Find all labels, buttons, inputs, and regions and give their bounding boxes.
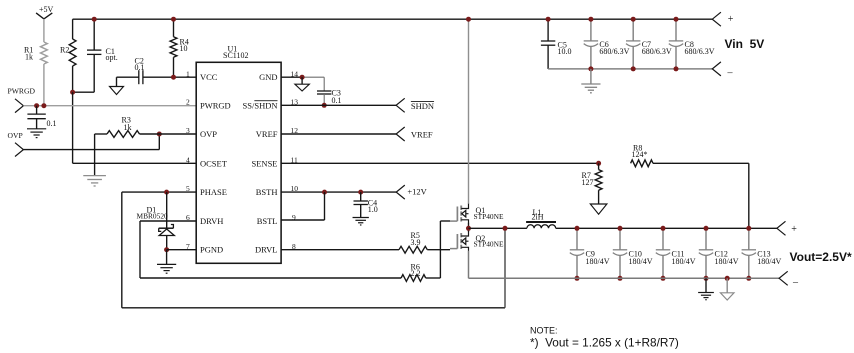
- svg-text:2.2: 2.2: [411, 269, 421, 278]
- svg-text:180/4V: 180/4V: [672, 257, 696, 266]
- U1 pin labels: [200, 72, 278, 255]
- node BSTH/C4 junction: [358, 190, 363, 195]
- wire PHASE route: [122, 192, 505, 308]
- wire R2 bottom: [72, 66, 74, 92]
- capacitor C8: [669, 19, 715, 69]
- op-amp U1 SC1102 body: [196, 45, 281, 264]
- resistor R1: [24, 42, 47, 64]
- node C8 bottom: [674, 66, 679, 71]
- diode D1 MBR0520: [137, 192, 175, 250]
- svg-text:*) Vout = 1.265 x (1+R8/R7): *) Vout = 1.265 x (1+R8/R7): [530, 336, 679, 350]
- node C9 top: [575, 226, 580, 231]
- connector Vout+: [777, 221, 797, 235]
- capacitor 0.1 at PWRGD: [27, 114, 56, 128]
- svg-text:0.1: 0.1: [47, 119, 57, 128]
- ground below R3: [83, 176, 106, 186]
- resistor R2: [60, 39, 76, 66]
- svg-text:OVP: OVP: [200, 129, 217, 139]
- wire VREF pin 12: [281, 126, 396, 135]
- connector Vin+: [712, 12, 734, 26]
- wire +5V/Vin top rail: [73, 18, 713, 20]
- svg-text:PWRGD: PWRGD: [8, 87, 36, 96]
- connector +12V: [396, 185, 427, 199]
- svg-text:NOTE:: NOTE:: [530, 326, 558, 336]
- wire PGND pin 7: [167, 242, 197, 251]
- capacitor C2: [135, 57, 145, 85]
- svg-text:SC1102: SC1102: [223, 51, 249, 60]
- resistor R6: [401, 263, 426, 282]
- inductor L1: [526, 208, 556, 229]
- wire R4 to VCC: [173, 57, 175, 77]
- svg-text:OVP: OVP: [8, 131, 23, 140]
- svg-text:DRVL: DRVL: [255, 245, 277, 255]
- svg-text:9: 9: [292, 213, 296, 222]
- connector Vin-: [712, 62, 733, 79]
- svg-text:STP40NE: STP40NE: [474, 240, 504, 249]
- svg-text:VREF: VREF: [411, 130, 433, 140]
- node PHASE/switch junction: [503, 226, 508, 231]
- wire to ground C12: [705, 278, 707, 292]
- node switch node: [466, 226, 471, 231]
- svg-text:680/6.3V: 680/6.3V: [642, 47, 672, 56]
- node C3/SSSHDN junction: [322, 103, 327, 108]
- wire R6 to Q1 gate: [426, 221, 450, 278]
- svg-text:BSTL: BSTL: [257, 216, 278, 226]
- label Vout: [790, 250, 852, 264]
- ground below Vin minus: [581, 84, 600, 93]
- resistor R3: [107, 115, 140, 137]
- connector OVP input: [8, 131, 24, 157]
- wire Q1 source to switch node: [468, 223, 470, 229]
- capacitor C9: [570, 228, 610, 278]
- resistor R7: [582, 163, 603, 190]
- svg-text:180/4V: 180/4V: [715, 257, 739, 266]
- capacitor C13: [742, 228, 782, 278]
- svg-text:4: 4: [186, 155, 190, 164]
- wire switch node to L1: [469, 227, 527, 229]
- wire switch node to Q2 drain: [468, 228, 470, 231]
- transistor Q2 STP40NE: [450, 231, 504, 251]
- svg-text:0.1: 0.1: [332, 96, 342, 105]
- svg-text:DRVH: DRVH: [200, 216, 223, 226]
- capacitor C5: [541, 19, 572, 69]
- svg-text:+5V: +5V: [39, 5, 54, 14]
- svg-text:1.0: 1.0: [368, 205, 378, 214]
- svg-text:1: 1: [186, 69, 190, 78]
- node Vin rail to Q1: [466, 17, 471, 22]
- capacitor C7: [626, 19, 672, 69]
- svg-text:SENSE: SENSE: [252, 158, 278, 168]
- node minus rail ground tri: [725, 276, 730, 281]
- svg-text:2: 2: [186, 97, 190, 106]
- svg-text:11: 11: [291, 155, 298, 164]
- capacitor C3: [317, 77, 342, 105]
- node D1/PGND junction: [164, 247, 169, 252]
- node C11 top: [661, 226, 666, 231]
- power +5V symbol: [36, 5, 53, 19]
- node C8 top: [674, 17, 679, 22]
- wire BSTL pin 9: [281, 213, 324, 222]
- connector VREF: [396, 127, 433, 141]
- svg-text:SS/SHDN: SS/SHDN: [243, 100, 278, 110]
- wire BSTL tie: [324, 192, 326, 220]
- svg-text:1k: 1k: [124, 123, 132, 132]
- svg-text:opt.: opt.: [106, 53, 118, 62]
- connector Vout-: [779, 271, 799, 288]
- svg-text:PWRGD: PWRGD: [200, 100, 231, 110]
- node C1 top: [92, 17, 97, 22]
- svg-text:13: 13: [291, 97, 299, 106]
- wire PHASE pin 5: [122, 184, 196, 193]
- ground arrow below minus rail: [720, 293, 734, 300]
- resistor R5: [399, 231, 427, 253]
- node SENSE/R7 junction: [596, 161, 601, 166]
- wire to ground arrow: [726, 278, 728, 293]
- node C13 bottom: [746, 276, 751, 281]
- transistor Q1 STP40NE: [450, 203, 504, 223]
- capacitor C10: [613, 228, 653, 278]
- node C7 bottom: [631, 66, 636, 71]
- svg-text:6: 6: [186, 213, 190, 222]
- svg-text:VCC: VCC: [200, 72, 218, 82]
- svg-text:7: 7: [186, 242, 190, 251]
- svg-text:127: 127: [582, 178, 594, 187]
- wire DRVL pin 8: [281, 242, 399, 251]
- ground below minus rail: [698, 293, 714, 300]
- wire C6 ground stub: [590, 69, 592, 84]
- capacitor C6: [584, 19, 630, 69]
- svg-text:8: 8: [292, 242, 296, 251]
- wire Q2 source down: [468, 251, 470, 278]
- svg-text:+: +: [728, 14, 734, 25]
- capacitor C1: [87, 47, 118, 62]
- label Vin 5V: [725, 37, 765, 51]
- wire BSTH pin 10: [281, 184, 396, 193]
- wire VCC pin 1: [143, 69, 196, 78]
- svg-text:10.0: 10.0: [558, 47, 572, 56]
- node C6 top: [588, 17, 593, 22]
- wire Vin minus rail: [548, 68, 712, 70]
- node GND/ground junction: [300, 75, 305, 80]
- svg-text:PHASE: PHASE: [200, 187, 227, 197]
- wire OCSET pin 4: [73, 155, 197, 164]
- svg-text:–: –: [792, 277, 799, 288]
- svg-text:680/6.3V: 680/6.3V: [599, 47, 629, 56]
- ground arrow below R7: [590, 204, 607, 214]
- svg-text:VREF: VREF: [256, 129, 278, 139]
- node R4/VCC junction: [171, 75, 176, 80]
- svg-text:GND: GND: [259, 72, 277, 82]
- wire C1 bottom: [73, 54, 95, 92]
- wire PWRGD net: [23, 97, 196, 106]
- svg-text:180/4V: 180/4V: [629, 257, 653, 266]
- svg-text:1k: 1k: [25, 53, 33, 62]
- wire PWRGD to cap: [36, 106, 38, 114]
- capacitor C4: [354, 192, 378, 217]
- svg-text:+12V: +12V: [407, 187, 427, 197]
- wire R3 to ground: [95, 134, 107, 176]
- svg-text:10: 10: [291, 184, 299, 193]
- svg-text:3: 3: [186, 126, 190, 135]
- node C10 bottom: [618, 276, 623, 281]
- resistor R4: [170, 37, 189, 57]
- ground below PGND: [157, 264, 176, 273]
- wire cap to ground: [36, 119, 38, 129]
- node C12 bottom: [704, 276, 709, 281]
- wire rail to R2: [72, 19, 74, 39]
- wire R1 to PWRGD net: [43, 64, 45, 106]
- ground below PWRGD cap: [27, 129, 46, 138]
- node PWRGD/cap junction: [34, 103, 39, 108]
- svg-text:Vout=2.5V*: Vout=2.5V*: [790, 250, 852, 264]
- svg-text:180/4V: 180/4V: [757, 257, 781, 266]
- wire R8 to Vout rail: [653, 163, 749, 228]
- svg-text:R2: R2: [60, 46, 69, 55]
- node BSTH/BSTL junction: [322, 190, 327, 195]
- svg-text:BSTH: BSTH: [256, 187, 278, 197]
- wire OVP pin 3: [140, 126, 197, 135]
- node OVP/R3 junction: [157, 132, 162, 137]
- svg-text:Vin 5V: Vin 5V: [725, 37, 765, 51]
- node C6 bottom: [588, 66, 593, 71]
- svg-text:STP40NE: STP40NE: [474, 212, 504, 221]
- wire R7 to ground arrow: [598, 190, 600, 204]
- svg-text:12: 12: [291, 126, 299, 135]
- svg-text:3.9: 3.9: [411, 238, 421, 247]
- node C9 bottom: [575, 276, 580, 281]
- wire R2/C1 to OCSET: [72, 92, 74, 163]
- node PHASE/D1 junction: [164, 190, 169, 195]
- svg-text:OCSET: OCSET: [200, 158, 228, 168]
- connector PWRGD input: [8, 87, 36, 113]
- svg-text:MBR0520: MBR0520: [137, 212, 169, 221]
- ground below C2: [110, 87, 124, 95]
- svg-text:14: 14: [291, 69, 299, 78]
- wire Vout minus rail: [469, 277, 780, 279]
- node R2/C1 junction: [70, 90, 75, 95]
- node R4 top: [171, 17, 176, 22]
- wire rail to R4: [173, 19, 175, 37]
- node C12 top: [704, 226, 709, 231]
- svg-text:+: +: [791, 224, 797, 235]
- wire GND pin 14: [281, 69, 324, 78]
- wire +5V to R1: [43, 19, 45, 42]
- node PWRGD/R1 junction: [41, 103, 46, 108]
- note text: [530, 326, 679, 350]
- wire OVP input: [23, 134, 159, 150]
- wire PGND to ground: [166, 250, 168, 265]
- wire SS/SHDN pin 13: [281, 97, 396, 106]
- svg-text:PGND: PGND: [200, 245, 223, 255]
- svg-text:0.1: 0.1: [135, 63, 145, 72]
- wire rail to C1: [93, 19, 95, 50]
- svg-text:180/4V: 180/4V: [586, 257, 610, 266]
- capacitor C11: [656, 228, 696, 278]
- connector SHDN: [396, 98, 434, 112]
- node C7 top: [631, 17, 636, 22]
- svg-text:10: 10: [180, 44, 188, 53]
- ground below C4: [353, 218, 369, 225]
- wire L1 to Vout+: [556, 227, 777, 229]
- node C11 bottom: [661, 276, 666, 281]
- capacitor C12: [699, 228, 739, 278]
- svg-text:–: –: [727, 67, 734, 78]
- resistor R8: [631, 143, 653, 166]
- wire C2 to ground: [117, 77, 139, 86]
- wire Vin to Q1 drain: [468, 19, 470, 204]
- node C10 top: [618, 226, 623, 231]
- wire R5 to Q2 gate: [427, 249, 450, 251]
- svg-text:2ìH: 2ìH: [532, 212, 544, 221]
- wire DRVH route: [140, 221, 401, 278]
- wire SENSE pin 11: [281, 155, 598, 164]
- svg-text:124*: 124*: [632, 150, 648, 159]
- ground below pin 14: [295, 77, 309, 91]
- wire DRVH pin 6: [140, 213, 196, 222]
- node C13 top: [746, 226, 751, 231]
- node C5 top: [546, 17, 551, 22]
- svg-text:680/6.3V: 680/6.3V: [685, 47, 715, 56]
- svg-text:5: 5: [186, 184, 190, 193]
- svg-text:SHDN: SHDN: [411, 101, 434, 111]
